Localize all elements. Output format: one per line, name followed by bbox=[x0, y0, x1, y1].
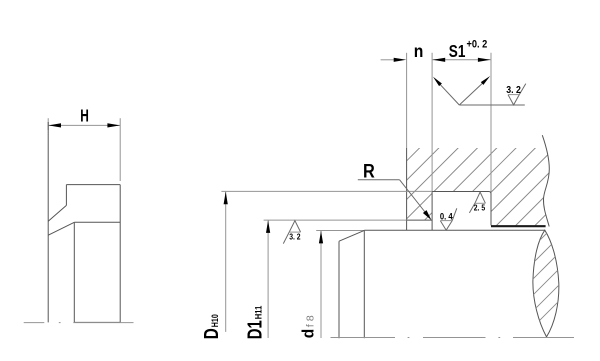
R leader underline bbox=[358, 179, 400, 181]
dimension H line bbox=[48, 124, 120, 126]
nose bottom face D1 bbox=[407, 219, 433, 221]
dimension H arrowhead right bbox=[107, 123, 120, 127]
seal outline right edge bbox=[119, 185, 121, 323]
roughness leader horizontal bbox=[459, 104, 525, 106]
left figure centerline segment 2 bbox=[73, 322, 133, 324]
svg-text:n: n bbox=[414, 41, 424, 61]
svg-text:+0. 2: +0. 2 bbox=[467, 39, 488, 51]
dimension S1 extension line left / groove left wall bbox=[431, 53, 433, 192]
rod chamfer bbox=[339, 230, 364, 241]
left figure centerline dot bbox=[59, 322, 61, 324]
rod centerline segment 1 bbox=[331, 337, 396, 339]
svg-text:H: H bbox=[80, 105, 89, 125]
svg-text:0. 4: 0. 4 bbox=[440, 211, 453, 221]
roughness symbol 3.2 on leader bbox=[508, 84, 526, 105]
dimension D1 line bbox=[267, 220, 269, 338]
dimension n extension line / housing outer face bbox=[406, 53, 408, 148]
seal outline left edge bbox=[47, 122, 49, 322]
rod centerline dot 2 bbox=[498, 337, 500, 339]
rod top surface bbox=[364, 229, 545, 231]
dimension D1 arrowhead bbox=[266, 220, 270, 233]
seal outline inner body vertical bbox=[73, 222, 75, 322]
dimension H extension line left bbox=[47, 118, 49, 130]
dimension d extension line bbox=[316, 230, 364, 232]
seal lip underside diagonal bbox=[48, 222, 74, 235]
svg-text:3. 2: 3. 2 bbox=[506, 85, 521, 96]
rod end face bbox=[338, 241, 340, 338]
seal outline step horizontal bbox=[74, 221, 120, 223]
roughness symbol 3.2 at D1 bore (flipped) bbox=[283, 221, 300, 244]
dimension S1 line bbox=[432, 59, 491, 61]
dimension H extension line right bbox=[119, 118, 121, 181]
label D H10 bbox=[201, 314, 223, 339]
label d f8 bbox=[299, 315, 318, 338]
rod chamfer junction line bbox=[363, 230, 365, 338]
dimension H arrowhead left bbox=[48, 123, 61, 127]
bore surface thick line right of groove bbox=[491, 225, 546, 227]
svg-text:2. 5: 2. 5 bbox=[474, 204, 486, 213]
housing break wavy line bbox=[542, 135, 549, 226]
rod broken-out section lens outline bbox=[533, 230, 559, 337]
dimension D arrowhead bbox=[224, 192, 228, 205]
dimension D extension line bbox=[221, 190, 432, 192]
dimension d line bbox=[320, 231, 322, 338]
dimension n arrowhead bbox=[394, 58, 407, 62]
dimension S1 extension line right / groove right wall bbox=[490, 53, 492, 194]
seal lip chamfer bbox=[48, 205, 66, 221]
dimension d arrowhead bbox=[319, 231, 323, 244]
R leader diagonal bbox=[400, 180, 425, 212]
seal outline top edge bbox=[66, 184, 120, 186]
groove bottom edge with right corner radius bbox=[432, 192, 491, 195]
dimension D1 extension line bbox=[264, 219, 407, 221]
svg-text:3. 2: 3. 2 bbox=[289, 233, 301, 242]
svg-text:R: R bbox=[363, 161, 375, 182]
roughness leader arrow to left groove wall bbox=[438, 82, 459, 105]
rod centerline segment 3 bbox=[513, 337, 574, 339]
roughness leader arrow to right groove wall bbox=[459, 81, 485, 105]
dimension D line bbox=[225, 192, 227, 332]
seal outline bottom edge bbox=[74, 321, 120, 323]
rod centerline dot 1 bbox=[408, 337, 410, 339]
rod broken-out section hatching bbox=[524, 214, 596, 336]
roughness symbol 0.4 on bore bbox=[440, 208, 457, 230]
R leader arrowhead bbox=[423, 210, 432, 220]
dimension S1 arrowhead left bbox=[433, 58, 446, 62]
svg-text:S1: S1 bbox=[449, 41, 466, 61]
left figure centerline segment 1 bbox=[24, 322, 45, 324]
dimension S1 arrowhead right bbox=[478, 58, 491, 62]
seal outline inner vertical bbox=[65, 185, 67, 206]
rod centerline segment 2 bbox=[423, 337, 486, 339]
roughness symbol 2.5 in groove (flipped) bbox=[469, 192, 485, 213]
label D1 H11 bbox=[245, 306, 267, 340]
housing hatching bbox=[338, 145, 600, 230]
dimension n leader line bbox=[381, 59, 395, 61]
